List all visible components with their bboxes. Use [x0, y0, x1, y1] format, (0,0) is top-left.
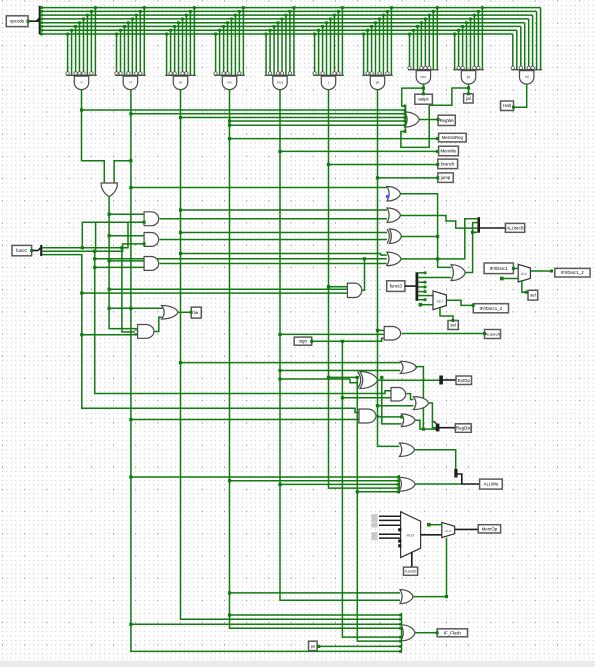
wire G5 to MemWe junction — [278, 150, 281, 153]
svg-text:ALU: ALU — [445, 529, 451, 533]
wire G6 to XOR-N3 in1 — [329, 376, 358, 378]
wire S6 stub 2 — [418, 286, 426, 289]
wire MUX4 in stub — [429, 524, 442, 526]
and-gate G9 opcode decode (jal) — [453, 6, 484, 84]
wire S3 to ExtOp box — [442, 379, 456, 381]
or-gate M2 — [387, 208, 401, 223]
svg-text:RegWe: RegWe — [440, 118, 455, 123]
node funcC bit2 branch — [120, 246, 123, 249]
wire G6 to P1 in1 — [329, 286, 348, 288]
and-gate P1 — [347, 283, 361, 297]
splitter opcode — [37, 6, 41, 35]
svg-text:j: j — [327, 81, 329, 85]
wire G_C output to P2 in3 — [160, 263, 387, 265]
node opcode bit 3 at splitter — [40, 21, 43, 24]
wire G8 output to decode box — [422, 84, 424, 94]
wire G4 to OR-N7 junction — [228, 479, 231, 482]
wire MUX3 input stub 0 — [372, 514, 401, 518]
wire G2 output long column — [131, 90, 401, 652]
wire G3 to OR-N2 in1 junction — [179, 361, 182, 364]
wire Q2 output to IF_Flush — [415, 632, 437, 634]
wire G7 output column — [378, 90, 400, 447]
output pin jal — [464, 94, 474, 103]
wire MUX5 out — [446, 300, 473, 305]
wire opcode bit 7 fan line — [41, 7, 541, 9]
wire x81.8 to AND-P1 in2 junction — [80, 292, 83, 295]
or-gate OR2 (down-facing) — [101, 183, 117, 197]
wire OR2 to G_D line — [109, 307, 131, 309]
node wire end — [30, 249, 33, 252]
node wire end — [452, 319, 455, 322]
wire G6 to P1 in1 junction — [327, 285, 330, 288]
wire MUX4 out to MemOp — [455, 528, 479, 530]
or-gate M1 — [387, 187, 401, 202]
svg-text:jal: jal — [375, 81, 380, 85]
node OR1 pin — [404, 116, 407, 119]
node M1 unused input (blue) — [386, 195, 389, 198]
wire OR2 to P1 in2 — [109, 288, 347, 290]
wire N5b output joins N2 column — [415, 420, 423, 429]
output pin ExtOp — [456, 376, 472, 385]
input pin sign — [294, 337, 312, 345]
wire opcode bit 5 fan line — [41, 14, 533, 16]
node wire end — [550, 270, 553, 273]
wire G5 to AND-N1 — [280, 333, 384, 335]
wire G1 output — [82, 90, 105, 183]
wire G4 to OR-N7 — [230, 480, 399, 482]
input pin funct3 — [404, 567, 418, 575]
wire opcode to splitter — [28, 20, 39, 22]
or-gate N7 (5-input) — [397, 475, 416, 494]
xor-gate M3 — [387, 229, 402, 244]
wire MUX5 in2 stub — [420, 304, 433, 306]
wire G7 to N5a in2 — [378, 405, 414, 407]
node wire end — [27, 20, 30, 23]
node wire end — [512, 106, 515, 109]
wire Q1 output riser — [413, 596, 447, 598]
wire MUX3 input stub 4 — [372, 536, 401, 540]
wire N3 output to ExtOp splitter — [378, 379, 440, 381]
label jal2 — [309, 641, 318, 650]
svg-text:auipc: auipc — [418, 97, 430, 102]
wire OR2 to P1 in2 junction — [108, 288, 111, 291]
wire G4 to MemtoReg junction — [228, 137, 231, 140]
or-gate G_D — [162, 306, 179, 320]
node funcC bit1 branch — [93, 250, 96, 253]
svg-text:funct3: funct3 — [405, 570, 415, 574]
wire G4 to MemtoReg — [230, 138, 438, 140]
svg-text:IF/IDsrc1_2: IF/IDsrc1_2 — [479, 306, 502, 311]
svg-text:sel: sel — [530, 293, 536, 298]
and-gate G10 opcode decode (hlt) — [511, 8, 542, 85]
output pin RegDst — [455, 424, 471, 433]
output pin jump — [438, 173, 454, 183]
node G8 branch — [422, 87, 425, 90]
wire N4 output to N5a — [407, 394, 414, 400]
or-gate N6 — [399, 443, 414, 457]
node wire end — [483, 332, 486, 335]
wire N1 output to ALUsrcA — [402, 333, 485, 335]
wire G7 to N5a in2 junction — [376, 404, 379, 407]
wire G7 to AND-N1 in1 junction — [376, 329, 379, 332]
node M3 joins x437.6 — [436, 235, 439, 238]
node MUX5 in2 open — [419, 303, 423, 307]
node wire end — [143, 242, 146, 245]
wire x381.8 to N5b in2 — [382, 377, 402, 424]
svg-text:hlt: hlt — [525, 75, 529, 79]
wire G5 output long column — [280, 90, 400, 601]
wire OR2 to G_C in1 — [109, 260, 144, 262]
wire S6 stub 1 — [418, 281, 426, 284]
wire MUX3 input stub 3 — [372, 532, 401, 536]
svg-text:MemWe: MemWe — [441, 148, 458, 153]
node OR1 pin — [404, 124, 407, 127]
svg-text:jal: jal — [310, 643, 315, 648]
svg-text:branch: branch — [441, 161, 455, 166]
wire G4 to OR-Q2 a junction — [228, 613, 231, 616]
wire funcO to S6 — [405, 285, 416, 287]
wire S6 to N8 in2 — [418, 277, 451, 279]
wire G2 to OR-Q2 c — [131, 623, 401, 625]
wire jal2 to Q2 — [319, 645, 401, 647]
and-gate G5 opcode decode (beq) — [265, 6, 296, 89]
svg-text:jal: jal — [465, 96, 471, 101]
wire G6 to branch — [329, 164, 438, 166]
wire G3 to AND-M3 — [181, 232, 388, 234]
node G2 branch to OR2 — [129, 159, 132, 162]
node OR1 pin — [404, 109, 407, 112]
wire funcC bit1 riser x95 — [95, 222, 97, 251]
splitter S5 ALUWe — [454, 469, 457, 478]
svg-text:RegDst: RegDst — [456, 426, 471, 431]
wire G5 to OR-N7 b junction — [278, 483, 281, 486]
svg-text:ALU: ALU — [521, 272, 528, 276]
wire S6 to MUX5 in1 — [418, 295, 433, 297]
wire funcC b1 L259 to P2 in2 — [95, 258, 387, 260]
node P1 joins L259 — [363, 257, 366, 260]
svg-text:sel: sel — [450, 323, 456, 328]
and-gate G_B — [144, 233, 159, 247]
wire G4 to RegWe-OR — [230, 120, 406, 122]
wire OR1 output to RegWe box — [419, 119, 438, 121]
wire x357.8 to OR-N7 — [357, 491, 398, 493]
wire funcC bit0 down x81.8 — [42, 255, 359, 413]
node wire end — [310, 340, 313, 343]
pin MUX3 unconnected 0 — [398, 528, 401, 531]
wire G4 to OR-Q1 — [230, 592, 401, 594]
and-gate G4 opcode decode (sw) — [214, 6, 245, 89]
wire G2 to G_D in1 — [131, 307, 163, 309]
wire opcode bit 2 fan line — [41, 25, 521, 27]
node opcode bit 1 at splitter — [40, 29, 43, 32]
svg-text:lw: lw — [194, 310, 199, 315]
window edge — [0, 661, 595, 668]
node wire end — [422, 92, 425, 95]
wire G3 to OR-M2 — [181, 209, 388, 211]
wire funcC b1 to G_C in2 — [95, 266, 144, 268]
wire OR2 to G_A in1 junction — [108, 213, 111, 216]
wire N8 riser tap to S2 junction — [471, 231, 474, 234]
wire funcC bit2 riser x82 — [82, 222, 128, 248]
node wire end — [437, 118, 440, 121]
node sign line branch — [341, 340, 344, 343]
svg-text:MemOp: MemOp — [482, 526, 498, 531]
output pin IF/IDsrc1_2 — [555, 268, 590, 277]
wire N7 output — [415, 483, 462, 485]
output pin ALUsrcA — [485, 330, 501, 339]
wire x357.8 column — [357, 377, 400, 641]
output pin ALUWe — [480, 479, 503, 489]
node opcode bit 0 at splitter — [40, 33, 43, 36]
output pin branch — [438, 159, 458, 169]
svg-text:beq: beq — [277, 81, 283, 85]
wire G5 to MemWe — [280, 150, 438, 152]
output pin MemOp — [478, 525, 500, 533]
wire G3 to RegWe-OR — [181, 117, 406, 119]
svg-text:sw: sw — [227, 81, 232, 85]
wire M1 output to N8 in1 — [401, 194, 452, 268]
and-gate G6 opcode decode (j) — [313, 6, 344, 89]
wire N2 output column — [415, 367, 436, 430]
and-gate N1 — [384, 327, 400, 341]
node wire end — [436, 137, 439, 140]
wire MUX2 in2 stub — [502, 278, 518, 280]
wire IF/IDsrc1 to MUX2 — [513, 267, 518, 269]
wire G9 output — [468, 84, 470, 94]
and-gate G2 opcode decode (I-t) — [115, 6, 146, 89]
node wire end — [436, 163, 439, 166]
mux MUX2 — [518, 264, 530, 282]
wire OR2 to G_B in1 — [109, 235, 144, 237]
and-gate G1 opcode decode (0) — [66, 6, 97, 89]
wire OR2 output column — [109, 197, 138, 329]
wire G4 to OR-Q2 a — [230, 614, 401, 616]
svg-text:Halt: Halt — [503, 103, 511, 108]
wire MUX4 select column — [446, 538, 448, 597]
wire G4 to RegWe-OR low — [230, 124, 406, 126]
wire G_F output — [376, 415, 401, 418]
wire funcC bit2 to G_A — [42, 222, 144, 248]
and-gate G8 opcode decode (dec) — [408, 6, 439, 84]
node wire end — [190, 311, 193, 314]
wire S6 stub 0 — [418, 271, 426, 274]
wire G2 to G_F in2 junction — [129, 418, 132, 421]
or-gate N8 — [451, 265, 465, 281]
wire G3 to P2 in1 junction — [179, 252, 182, 255]
wire M3 output stub — [401, 236, 438, 238]
node P2 out joins x437.6 — [436, 257, 439, 260]
wire G2 to OR-Q2 c junction — [129, 623, 132, 626]
output pin RegWe — [438, 115, 455, 125]
wire G1 to RegWe-OR junction — [80, 108, 83, 111]
wire MUX3 output — [421, 534, 442, 536]
wire G7 to AND-N1 in1 — [378, 329, 385, 331]
wire G4 to RegWe-OR low junction — [228, 124, 231, 127]
wire funcC to splitter — [32, 250, 39, 252]
wire M2 output to S2 — [401, 216, 478, 229]
wire G5 to XOR-N3 — [280, 378, 350, 380]
and-gate G_C — [144, 257, 159, 271]
wire opcode bit 1 fan line — [41, 29, 517, 31]
node wire end — [512, 267, 515, 270]
output pin auipc — [415, 94, 433, 104]
splitter funcC — [38, 245, 42, 256]
wire OR2 to G_C in1 junction — [108, 259, 111, 262]
wire S4 to RegDst box — [439, 427, 455, 429]
node G9 branch — [467, 86, 470, 89]
wire x81.8 to AND-P1 in2 — [82, 292, 348, 294]
mux MUX5 — [433, 291, 446, 310]
wire MUX3 select — [411, 552, 413, 567]
node MUX2 out end — [550, 270, 553, 273]
svg-text:0: 0 — [81, 81, 83, 85]
wire P2 in1 jog — [381, 254, 387, 256]
or-gate P2 — [387, 252, 401, 266]
label funct3 — [387, 281, 405, 292]
wire G5 to XOR-N3 junction — [278, 377, 281, 380]
node wire end — [397, 487, 400, 490]
pin MUX3 unconnected 2 — [398, 544, 401, 547]
svg-text:I-t: I-t — [129, 81, 132, 85]
wire sign to AND-N1 — [312, 338, 385, 341]
output pin IF/IDsrc1_2 b — [473, 304, 508, 313]
wire G2 to OR-M1 junction — [129, 186, 132, 189]
wire G2 to RegWe-OR junction — [129, 112, 132, 115]
wire opcode bit 4 fan line — [41, 18, 529, 20]
wire G5 to OR-N2 b — [280, 370, 400, 372]
wire G2 to OR-N7 in1 junction — [129, 475, 132, 478]
wire x357.8 to OR-N7 junction — [356, 490, 359, 493]
and-gate G_A — [144, 212, 159, 226]
svg-text:IF/IDsrc1: IF/IDsrc1 — [490, 266, 509, 271]
wire S6 stub 3 — [418, 290, 426, 293]
svg-text:ALUWe: ALUWe — [484, 482, 499, 487]
wire G3 to AND-M3 junction — [179, 231, 182, 234]
svg-text:sign: sign — [299, 339, 308, 344]
wire opcode bit 0 fan line — [41, 33, 513, 35]
splitter S4 RegDst — [434, 421, 440, 431]
node wire end — [143, 221, 146, 224]
node OR1 pin — [404, 112, 407, 115]
and-gate G_F — [359, 409, 376, 423]
wire N8 output riser — [465, 223, 477, 273]
wire OR2 to G_A in1 — [109, 213, 144, 215]
node wire end — [472, 304, 475, 307]
wire G5 to OR-N7 b — [280, 483, 399, 485]
svg-text:funcC: funcC — [16, 248, 27, 253]
svg-text:ExtOp: ExtOp — [458, 378, 471, 383]
wire P1 output riser to L259 — [362, 259, 365, 291]
and-gate G7 opcode decode (jal) — [362, 6, 393, 89]
wire G1 to RegWe-OR — [82, 109, 406, 111]
node opcode bit 2 at splitter — [40, 25, 43, 28]
svg-text:IF_Flush: IF_Flush — [444, 630, 462, 635]
wire G_B output to M3 in2 — [160, 239, 387, 241]
svg-text:jump: jump — [440, 175, 451, 180]
output pin Halt — [501, 101, 514, 111]
node MUX4 stub dot — [427, 523, 431, 527]
svg-text:dec: dec — [421, 75, 427, 79]
wire G2 to G_D in1 junction — [129, 307, 132, 310]
wire G3 to OR-N2 in1 — [181, 362, 401, 364]
wire G2 to OR-N7 in1 — [131, 476, 399, 478]
svg-text:MemtoReg: MemtoReg — [442, 135, 464, 140]
wire G3 to P2 in1 — [181, 253, 382, 255]
input pin sel2 — [448, 321, 458, 330]
svg-text:lw: lw — [179, 81, 183, 85]
wire G7 to jump junction — [376, 176, 379, 179]
wire N6 output — [415, 450, 456, 471]
node wire end — [400, 415, 403, 418]
and-gate G3 opcode decode (lw) — [165, 6, 196, 89]
and-gate G_E (with bubble) — [134, 325, 154, 339]
or-gate Q1 — [400, 590, 413, 604]
wire G4 to OR-Q1 junction — [228, 591, 231, 594]
wire G5 to AND-N1 junction — [278, 333, 281, 336]
wire opcode bit 6 fan line — [41, 10, 537, 12]
wire G4 to RegWe-OR junction — [228, 119, 231, 122]
wire G2 branch to OR2 — [114, 161, 131, 183]
pin MUX3 unconnected 1 — [398, 539, 401, 542]
node opcode bit 5 at splitter — [40, 14, 43, 17]
or-gate OR1 RegWe (multi-input) — [405, 105, 419, 132]
svg-text:funct3: funct3 — [390, 284, 403, 289]
svg-text:jal: jal — [466, 75, 471, 79]
mux MUX3 MemOp select — [401, 512, 421, 558]
wire OR2 to G_D line junction — [108, 307, 111, 310]
output pin IF_Flush — [437, 629, 467, 637]
wire opcode bit 3 fan line — [41, 22, 525, 24]
node wire end — [525, 291, 528, 294]
svg-text:IF/IDsrc1_2: IF/IDsrc1_2 — [561, 270, 584, 275]
node opcode bit 4 at splitter — [40, 18, 43, 21]
wire G5 to OR-N2 b junction — [278, 369, 281, 372]
wire funcC bit2 down to G_E in2 — [122, 248, 138, 332]
or-gate N2 — [400, 361, 416, 373]
input pin opcode — [6, 16, 28, 27]
mux MUX4 — [442, 522, 455, 537]
svg-text:ALU: ALU — [437, 300, 444, 304]
splitter S6 funcO — [416, 272, 419, 301]
wire G2 to G_F in2 — [131, 419, 359, 421]
wire funcC bit1 down column to N4 — [95, 251, 391, 393]
wire G6 to branch junction — [327, 163, 330, 166]
node x357.8 on N3 line — [356, 376, 359, 379]
node wire end — [467, 92, 470, 95]
wire funcC b1 L259 to P2 in2 junction — [93, 257, 96, 260]
node jal2 out — [317, 645, 320, 648]
svg-text:ALUsrcA: ALUsrcA — [485, 333, 500, 337]
wire G10 output to Halt — [514, 84, 527, 107]
wire S2 to ALUsrcB box — [480, 227, 505, 229]
xor-gate N3 — [358, 372, 378, 389]
splitter S3 ExtOp — [439, 376, 443, 385]
wire N5a output to RegDst splitter — [429, 403, 437, 428]
wire G4 output long column — [230, 90, 401, 629]
wire XOR-N3 in2 jog — [350, 379, 358, 383]
input pin sel — [528, 290, 538, 300]
wire G6 output column — [329, 90, 399, 489]
node wire end — [436, 176, 439, 179]
wire MUX2 out to IF/IDsrc1_2 — [530, 270, 553, 272]
wire MUX5 select — [440, 308, 453, 321]
wire MUX3 input stub 1 — [372, 518, 401, 522]
wire G_A output to M2 in2 — [160, 218, 387, 220]
node x381.8 tap — [380, 376, 383, 379]
svg-text:ALUsrcB: ALUsrcB — [506, 225, 523, 230]
wire x81.8 to G_E in3 junction — [80, 333, 83, 336]
or-gate N5b — [401, 414, 415, 427]
